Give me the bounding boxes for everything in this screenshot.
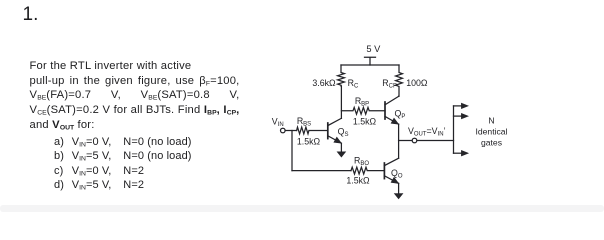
load bracket vertical wire bbox=[453, 106, 455, 153]
wire VIN to RBS bbox=[285, 130, 297, 132]
svg-text:5 V: 5 V bbox=[366, 44, 381, 54]
svg-text:1.5kΩ: 1.5kΩ bbox=[353, 116, 377, 126]
svg-text:3.6kΩ: 3.6kΩ bbox=[312, 78, 336, 88]
svg-text:1.5kΩ: 1.5kΩ bbox=[297, 137, 321, 147]
wire RC bottom to node B bbox=[340, 86, 342, 118]
svg-text:QO: QO bbox=[391, 168, 403, 180]
resistor RBS (1.5k, horizontal) bbox=[297, 127, 328, 134]
transistor QO bbox=[384, 141, 398, 184]
svg-text:VOUT=VIN’: VOUT=VIN’ bbox=[408, 126, 446, 138]
list items a) to d) bbox=[54, 135, 64, 193]
load branch arrow 2 bbox=[454, 113, 469, 118]
svg-text:RCP: RCP bbox=[382, 78, 397, 90]
transistor QP bbox=[385, 96, 399, 140]
wire bottom rail to RBO bbox=[292, 170, 351, 172]
output terminal circle bbox=[412, 138, 417, 143]
load branch arrow 1 bbox=[454, 103, 469, 108]
svg-text:1.5kΩ: 1.5kΩ bbox=[346, 175, 370, 185]
problem statement paragraph bbox=[30, 59, 240, 133]
svg-text:RC: RC bbox=[348, 78, 359, 90]
svg-text:QP: QP bbox=[395, 108, 406, 120]
output wire VOUT bbox=[399, 140, 454, 142]
input terminal VIN bbox=[281, 128, 286, 133]
svg-text:100Ω: 100Ω bbox=[406, 78, 428, 88]
resistor RBP (1.5k, horizontal) bbox=[341, 107, 385, 114]
faint scan artifact band at bottom bbox=[0, 205, 604, 212]
problem number 1. bbox=[23, 4, 39, 26]
svg-text:RBS: RBS bbox=[297, 116, 311, 128]
resistor RBO (1.5k, horizontal) bbox=[351, 167, 384, 174]
ground at QO emitter (arrow style) bbox=[394, 183, 402, 198]
node VCC top rail wire bbox=[341, 64, 399, 66]
wire input node down to bottom rail bbox=[291, 131, 293, 171]
power supply 5V symbol bbox=[365, 57, 376, 65]
svg-text:VIN: VIN bbox=[272, 117, 284, 129]
svg-text:RBP: RBP bbox=[355, 96, 369, 108]
svg-text:QS: QS bbox=[338, 126, 349, 138]
transistor QS bbox=[328, 118, 342, 143]
ground at QS emitter (arrow style) bbox=[337, 143, 345, 157]
resistor RCP (100 ohm, vertical) bbox=[396, 65, 403, 96]
resistor RC (3.6k, vertical) bbox=[338, 65, 345, 86]
svg-text:gates: gates bbox=[481, 138, 502, 148]
svg-text:Identical: Identical bbox=[475, 127, 507, 137]
svg-text:RBO: RBO bbox=[354, 156, 369, 168]
svg-text:N: N bbox=[488, 115, 494, 125]
load branch arrow 3 bbox=[454, 151, 469, 156]
